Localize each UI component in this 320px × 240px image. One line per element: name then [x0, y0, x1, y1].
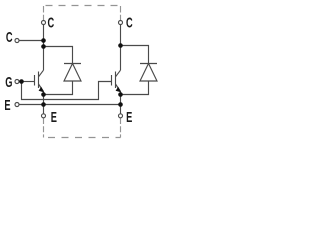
terminal C1 circle — [42, 21, 46, 25]
wire to diode D1 top — [44, 47, 73, 64]
junction node E1/D1 — [41, 92, 46, 97]
junction node E2/E bus — [118, 102, 123, 107]
label E bottom1 — [51, 109, 57, 126]
transistor Q2 channel bar — [115, 72, 117, 89]
svg-text:C: C — [48, 14, 55, 31]
transistor Q1 collector angle — [39, 70, 44, 77]
terminal C aux circle — [15, 39, 19, 43]
label C top1 — [48, 14, 55, 31]
terminal stub E1 dashed — [43, 118, 45, 138]
terminal stub C1 dashed — [43, 6, 45, 21]
junction node E1/E bus — [41, 102, 46, 107]
wire C aux horizontal — [19, 40, 44, 42]
diode D2 cathode bar — [140, 63, 157, 65]
diode D2 triangle — [140, 64, 157, 82]
arrow Q2 emitter — [116, 87, 122, 93]
transistor Q1 emitter angle — [39, 84, 44, 92]
transistor Q1 channel bar — [38, 72, 40, 89]
arrow Q1 emitter — [39, 87, 45, 93]
transistor Q1 gate bar — [34, 75, 36, 86]
wire C2 vertical — [120, 25, 122, 71]
transistor Q2 emitter angle — [116, 84, 121, 92]
wire Q1 emitter vertical — [43, 92, 45, 114]
label C top2 — [126, 14, 133, 31]
svg-text:G: G — [5, 74, 12, 91]
terminal G circle — [15, 80, 19, 84]
diode D1 cathode bar — [64, 63, 81, 65]
junction node C1/D1 — [41, 44, 46, 49]
junction node C2/D2 — [118, 43, 123, 48]
svg-text:E: E — [51, 109, 57, 126]
wire D1 return — [44, 81, 73, 95]
package outline top dashed — [46, 5, 121, 7]
junction node C1/Caux — [41, 38, 46, 43]
terminal E aux circle — [15, 103, 19, 107]
wire gate bus to Q2 — [22, 82, 112, 100]
terminal C2 circle — [119, 21, 123, 25]
terminal E1 circle — [42, 114, 46, 118]
svg-text:C: C — [6, 29, 13, 46]
svg-text:E: E — [4, 97, 10, 114]
wire D2 return — [121, 81, 149, 95]
terminal E2 circle — [119, 114, 123, 118]
wire Q2 emitter vertical — [120, 92, 122, 114]
junction node E2/D2 — [118, 92, 123, 97]
wire C1 vertical — [43, 25, 45, 71]
wire to diode D2 top — [121, 46, 149, 64]
diode D1 triangle — [64, 64, 81, 82]
package outline bottom dashed — [48, 137, 121, 139]
terminal stub E2 dashed — [120, 118, 122, 138]
svg-text:E: E — [126, 109, 132, 126]
transistor Q1 gate wire — [19, 81, 35, 83]
junction node G split — [19, 79, 24, 84]
label G — [5, 74, 12, 91]
wire E bus — [19, 104, 121, 106]
label C aux — [6, 29, 13, 46]
transistor Q2 gate bar — [111, 75, 113, 86]
svg-text:C: C — [126, 14, 133, 31]
transistor Q2 collector angle — [116, 70, 121, 77]
label E bottom2 — [126, 109, 132, 126]
terminal stub C2 dashed — [120, 6, 122, 21]
label E aux — [4, 97, 10, 114]
